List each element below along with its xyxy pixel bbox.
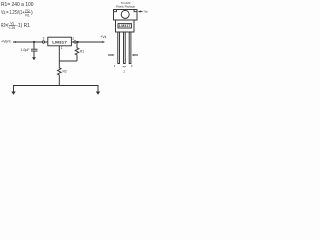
svg-text:+Vent: +Vent <box>1 40 11 44</box>
svg-text:1: 1 <box>61 46 63 50</box>
svg-text:1.0µF: 1.0µF <box>21 48 30 52</box>
ground left arrow <box>11 92 15 95</box>
label leg 2 pointer <box>123 65 126 68</box>
ground (arrow style) <box>32 57 36 60</box>
svg-text:1.25: 1.25 <box>9 26 15 30</box>
ground right arrow <box>96 92 100 95</box>
svg-text:Vs: Vs <box>10 22 14 26</box>
wire adj to R1 <box>59 60 77 62</box>
svg-text:R2: R2 <box>63 69 67 73</box>
svg-text:Tab: Tab <box>144 10 149 14</box>
pin 3 terminal circle <box>42 41 44 43</box>
capacitor C1 <box>31 48 38 50</box>
wire output <box>71 41 103 43</box>
node B junction <box>77 41 79 43</box>
wire input arrow head <box>13 41 16 43</box>
pin 2 terminal circle <box>74 41 76 43</box>
svg-text:+Vs: +Vs <box>100 35 106 39</box>
leg 3 <box>129 32 131 64</box>
wire output arrow head <box>102 41 105 43</box>
capacitor C1 branch wire <box>33 42 35 49</box>
leg 2 <box>124 32 126 64</box>
TO-220 body <box>116 20 135 32</box>
wire <box>33 51 35 58</box>
svg-text:LM317: LM317 <box>52 39 67 44</box>
pin 1 adj wire <box>58 46 60 61</box>
leg 1 <box>118 32 120 64</box>
node A junction <box>33 41 35 43</box>
resistor R1 <box>75 43 79 61</box>
svg-text:3: 3 <box>43 37 45 41</box>
svg-text:-1) R1: -1) R1 <box>16 23 30 29</box>
svg-text:R1: R1 <box>25 13 29 17</box>
resistor R2 <box>58 61 62 86</box>
tab pointer arrow <box>140 11 143 13</box>
svg-text:2: 2 <box>123 69 125 73</box>
TO-220 tab <box>114 10 138 21</box>
svg-text:Plastic Package: Plastic Package <box>116 5 135 9</box>
svg-text:R1: R1 <box>80 50 84 54</box>
wire <box>45 41 48 43</box>
TO-220 mounting hole <box>121 10 129 18</box>
LM317 label frame <box>118 24 131 28</box>
svg-text:LM317: LM317 <box>119 24 131 28</box>
wire ground rail <box>14 86 99 93</box>
svg-text:3: 3 <box>131 64 133 68</box>
node input wire <box>13 41 42 43</box>
leg arrow right <box>134 54 139 56</box>
svg-text:R2=(: R2=( <box>1 23 9 29</box>
svg-text:2: 2 <box>72 37 74 41</box>
leg arrow left <box>108 54 112 56</box>
svg-text:R2: R2 <box>25 9 29 13</box>
op-amp U1 LM317 box <box>48 37 72 46</box>
svg-text:Vs = 1.25V(1+: Vs = 1.25V(1+ <box>1 10 25 16</box>
svg-text:R1= 240 a 100: R1= 240 a 100 <box>1 2 34 8</box>
svg-text:1: 1 <box>114 64 116 68</box>
